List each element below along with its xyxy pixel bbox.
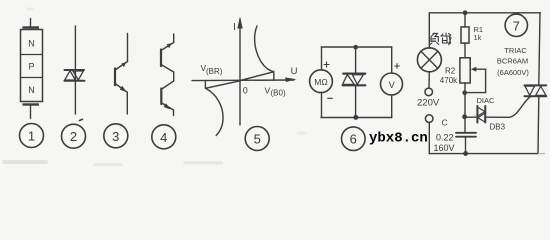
bottom electrode plate — [23, 103, 40, 105]
wire right lower — [391, 95, 393, 118]
wire upper lead — [127, 34, 129, 62]
lower emitter arrowhead — [120, 86, 127, 92]
diac DB3 left bar — [476, 106, 478, 123]
wire right upper (triac anode) — [539, 13, 540, 85]
quadrant-3 breakover vertical — [204, 81, 206, 88]
wire lower lead — [126, 92, 128, 114]
svg-text:160V: 160V — [434, 143, 455, 153]
transistor Q2 emitter arrowhead — [164, 103, 171, 109]
svg-text:2: 2 — [70, 129, 77, 144]
wire bottom — [321, 117, 392, 119]
small ink speck — [80, 119, 83, 120]
diac DB3 right bar — [484, 106, 486, 123]
quadrant-1 negative-resistance curve — [255, 26, 274, 72]
svg-text:V: V — [389, 80, 395, 90]
wire bottom lead of NPN stack — [30, 106, 32, 119]
label V(BR) — [201, 63, 223, 76]
junction dot bottom — [353, 115, 358, 120]
triac top bar — [525, 84, 547, 86]
junction dot diac node — [462, 114, 467, 119]
wire bottom — [429, 153, 538, 155]
wiper return wire right vertical — [485, 69, 487, 92]
circled number 5 — [245, 127, 269, 151]
svg-text:0: 0 — [243, 86, 248, 96]
transistor Q2 base bar — [160, 89, 162, 105]
wire terminal to bottom — [428, 123, 430, 154]
wire DB3 to gate curve — [486, 96, 531, 117]
triac left triangle (down) — [525, 86, 535, 95]
svg-text:5: 5 — [254, 132, 261, 147]
plus sign at MΩ — [324, 62, 329, 67]
I axis arrowhead — [237, 17, 242, 29]
diac left triangle (up) — [343, 75, 355, 85]
diac DB3 upper triangle (right) — [478, 107, 485, 116]
wire left lower — [321, 93, 323, 118]
I axis vertical — [239, 19, 241, 125]
junction dot bottom — [463, 151, 468, 156]
quadrant-1 leakage line — [241, 72, 274, 81]
transistor Q2 emitter line — [162, 103, 174, 110]
circled number 1 — [20, 124, 44, 148]
svg-text:P: P — [28, 62, 34, 72]
circled number 2 — [62, 124, 86, 148]
R2 wiper arm with arrowhead — [471, 67, 486, 72]
wire top lead of NPN stack — [30, 19, 32, 28]
quadrant-1 breakover vertical — [273, 72, 275, 81]
svg-text:(6A600V): (6A600V) — [497, 68, 529, 77]
svg-text:470k: 470k — [440, 76, 458, 85]
plus sign at voltmeter — [395, 64, 400, 69]
U axis arrowhead — [285, 77, 297, 82]
NPN body box — [21, 30, 43, 102]
svg-text:7: 7 — [513, 18, 520, 33]
terminal circle lower — [425, 115, 433, 123]
wire top to R1 — [464, 13, 466, 27]
wire node to DB3 — [465, 116, 477, 118]
svg-text:MΩ: MΩ — [314, 77, 327, 87]
wire right lower — [537, 97, 540, 154]
svg-text:N: N — [28, 39, 35, 49]
label 负载 (load) drawn glyphs — [430, 33, 451, 45]
terminal circle upper — [425, 88, 433, 96]
diac bottom bar — [65, 80, 85, 82]
svg-text:N: N — [28, 85, 35, 95]
wire top — [322, 46, 392, 48]
lamp load (circle with X) — [417, 48, 441, 72]
wire R2 to diac node — [464, 83, 466, 132]
wire middle vertical — [173, 72, 175, 81]
wire diac branch lower — [355, 86, 357, 118]
diac DB3 lower triangle (left) — [478, 113, 485, 122]
svg-text:0.22: 0.22 — [436, 133, 454, 143]
svg-text:TRIAC: TRIAC — [504, 46, 527, 55]
voltmeter V — [381, 73, 403, 95]
wire top lead — [173, 34, 175, 43]
lower emitter line — [116, 84, 128, 92]
transistor Q1 emitter arrowhead — [167, 43, 172, 48]
resistor R1 — [461, 27, 469, 43]
svg-text:I: I — [233, 22, 236, 33]
label V(B0) — [265, 86, 286, 98]
svg-text:1k: 1k — [474, 33, 482, 42]
upper emitter arrowhead — [121, 62, 126, 67]
wire bottom lead — [173, 110, 175, 116]
circled number 6 — [342, 127, 366, 151]
transistor Q1 emitter line — [162, 43, 174, 51]
diac right triangle (down) — [73, 71, 84, 80]
diac bottom bar — [343, 84, 366, 86]
circled number 3 — [104, 124, 128, 148]
wire diac branch upper — [355, 47, 357, 73]
svg-text:R2: R2 — [445, 67, 456, 76]
wire capacitor to bottom — [465, 137, 467, 154]
svg-text:1: 1 — [28, 129, 35, 144]
minus sign at MΩ — [328, 97, 333, 99]
wire R1 to R2 — [464, 43, 466, 58]
transistor Q1 collector line — [162, 65, 174, 72]
svg-text:(BR): (BR) — [206, 67, 223, 76]
triac bottom bar — [525, 95, 547, 97]
svg-text:(B0): (B0) — [271, 89, 286, 98]
capacitor C plates — [456, 133, 476, 137]
svg-text:3: 3 — [112, 129, 119, 144]
svg-text:220V: 220V — [417, 98, 440, 109]
diac right triangle (down) — [352, 75, 363, 85]
wire right upper — [391, 47, 393, 73]
triac right triangle (up) — [536, 86, 546, 95]
circled number 4 — [152, 125, 176, 149]
potentiometer R2 body — [460, 58, 470, 83]
diac top bar — [65, 69, 85, 71]
svg-text:4: 4 — [160, 130, 167, 145]
megohmmeter MΩ — [310, 70, 333, 93]
divider line P/N — [21, 77, 43, 79]
svg-text:ybx8.cn: ybx8.cn — [369, 131, 428, 147]
diac top bar — [343, 72, 365, 74]
wire left upper — [321, 47, 323, 70]
svg-text:DIAC: DIAC — [477, 96, 496, 105]
wiper return wire horizontal — [465, 92, 486, 94]
wire vertical lead of diac — [74, 26, 76, 114]
transistor Q1 base bar — [160, 50, 162, 67]
svg-text:BCR6AM: BCR6AM — [497, 57, 528, 66]
U axis horizontal — [192, 79, 294, 82]
divider line N/P — [21, 54, 43, 56]
diac left triangle (up) — [65, 71, 76, 80]
upper emitter line — [116, 62, 128, 70]
wire lamp to terminal — [428, 72, 430, 88]
wire left upper — [428, 13, 430, 48]
top electrode plate — [23, 26, 40, 28]
base bar — [114, 68, 116, 85]
junction dot top (R1 branch) — [463, 10, 468, 15]
transistor Q2 collector line — [162, 81, 174, 89]
svg-text:DB3: DB3 — [490, 123, 506, 132]
svg-text:6: 6 — [350, 132, 357, 147]
svg-text:C: C — [442, 118, 448, 128]
circled number 7 — [505, 14, 527, 36]
quadrant-3 leakage line — [206, 81, 240, 88]
faint scan smudges — [2, 8, 545, 167]
wire top — [429, 12, 540, 14]
svg-text:U: U — [291, 66, 298, 77]
junction dot top — [353, 45, 358, 50]
junction dot wiper return — [462, 90, 467, 95]
quadrant-3 negative-resistance curve — [206, 88, 223, 135]
